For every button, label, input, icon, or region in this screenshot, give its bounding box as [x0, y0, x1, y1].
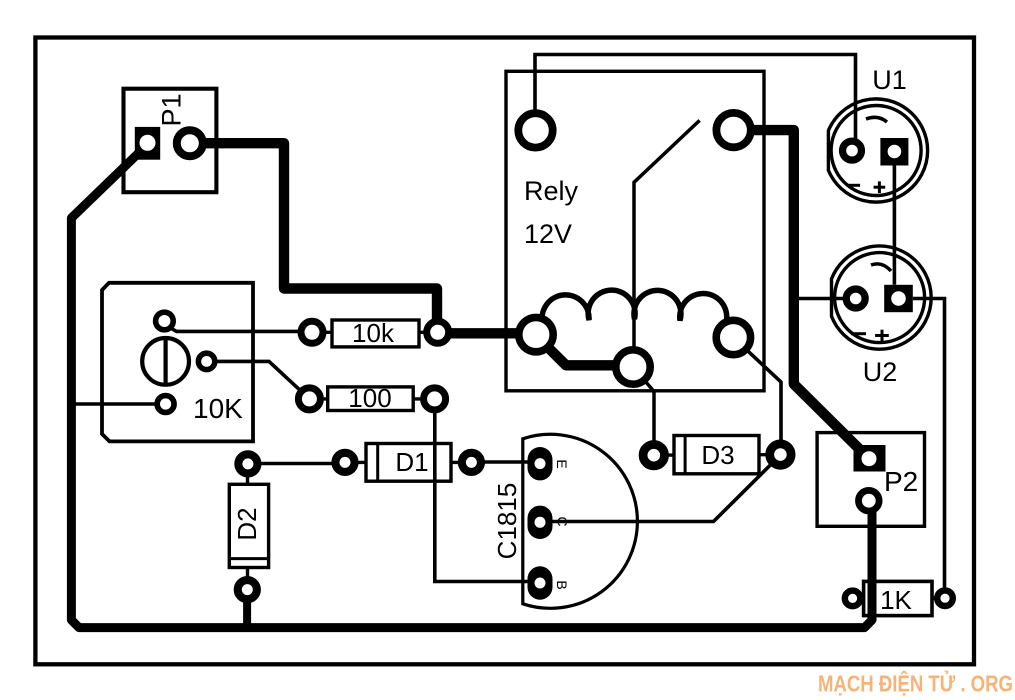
- svg-text:B: B: [554, 580, 570, 589]
- svg-text:MẠCH ĐIỆN TỬ . ORG: MẠCH ĐIỆN TỬ . ORG: [818, 669, 1013, 697]
- svg-text:P1: P1: [157, 93, 187, 126]
- svg-text:U1: U1: [872, 65, 907, 95]
- svg-text:C: C: [554, 516, 570, 526]
- svg-text:12V: 12V: [524, 219, 572, 249]
- svg-text:D1: D1: [395, 447, 428, 477]
- svg-text:10K: 10K: [193, 393, 243, 424]
- svg-text:10k: 10k: [352, 318, 395, 348]
- svg-text:D2: D2: [232, 507, 262, 540]
- svg-text:E: E: [554, 459, 570, 468]
- svg-text:Rely: Rely: [524, 176, 579, 206]
- svg-text:C1815: C1815: [492, 483, 522, 560]
- svg-text:U2: U2: [863, 357, 898, 387]
- svg-text:100: 100: [348, 383, 391, 413]
- svg-text:D3: D3: [701, 440, 734, 470]
- svg-text:P2: P2: [884, 466, 918, 497]
- svg-text:1K: 1K: [880, 585, 912, 615]
